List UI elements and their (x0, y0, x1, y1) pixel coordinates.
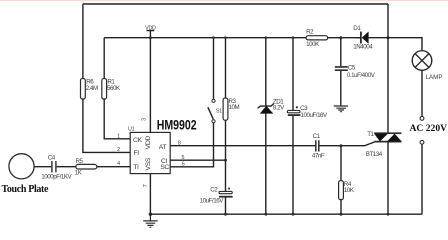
wire R4 top lead (340, 144, 343, 180)
svg-text:S1: S1 (216, 109, 222, 115)
net AC 220V label (410, 123, 448, 134)
svg-text:HM9902: HM9902 (157, 117, 197, 133)
svg-text:TI: TI (133, 164, 139, 171)
wire pin6 SC to switch column (170, 123, 213, 167)
switch S1 (208, 99, 222, 123)
node AC lower terminal (420, 140, 424, 144)
wire lower AC terminal to bottom rail (421, 144, 423, 214)
capacitor C5 (335, 64, 376, 79)
svg-text:560K: 560K (107, 85, 121, 92)
wire R6 top lead (82, 4, 84, 79)
wire triac column lower (387, 142, 390, 216)
svg-text:100K: 100K (306, 41, 320, 48)
wire triac column upper (387, 4, 389, 133)
resistor R1 (102, 79, 121, 100)
capacitor C2 polarized (200, 187, 233, 205)
capacitor C1 (312, 133, 325, 160)
svg-text:10K: 10K (344, 187, 355, 194)
svg-text:VSS: VSS (145, 157, 152, 170)
resistor R5 (75, 158, 97, 176)
svg-text:7: 7 (143, 184, 149, 187)
wire R1 top lead (103, 38, 105, 79)
wire ZD1 bottom lead (264, 113, 267, 215)
node AC upper terminal (420, 117, 424, 121)
power VDD symbol (145, 25, 156, 39)
touch plate electrode (2, 154, 50, 196)
wire pin3 stub (149, 38, 151, 133)
svg-text:C5: C5 (348, 64, 356, 71)
ground C5 (334, 106, 348, 112)
pin number 5 (182, 155, 185, 161)
svg-text:D1: D1 (353, 25, 361, 32)
wire C1 to triac gate (320, 142, 375, 146)
wire C5 top lead (340, 38, 342, 67)
lamp (412, 51, 442, 81)
wire ZD1 top lead (265, 36, 268, 106)
svg-text:3: 3 (142, 118, 148, 121)
transistor T1 triac (366, 131, 402, 158)
pin number 1 (117, 134, 120, 140)
svg-text:1000pF/1KV: 1000pF/1KV (41, 174, 72, 181)
wire D1 cathode-side wire at left (to R2) (356, 37, 361, 39)
svg-text:R2: R2 (306, 29, 314, 36)
svg-text:U1: U1 (128, 127, 135, 133)
svg-text:T1: T1 (367, 131, 374, 138)
wire lamp to upper AC terminal (421, 70, 423, 116)
svg-text:1N4004: 1N4004 (353, 44, 373, 51)
svg-text:CK: CK (133, 137, 143, 144)
svg-text:C4: C4 (48, 155, 56, 162)
wire pin7 lead (149, 174, 151, 215)
wire top rail (83, 3, 388, 5)
pin number 2 (117, 147, 120, 153)
resistor R4 (339, 181, 355, 200)
resistor R6 (81, 79, 99, 100)
wire C3 bottom lead (292, 116, 295, 216)
svg-text:FI: FI (134, 150, 140, 157)
pin number 6 (182, 161, 185, 167)
capacitor C4 (41, 155, 72, 181)
pin number 4 (117, 161, 120, 167)
pin number 3 (142, 118, 148, 121)
svg-text:0.1uF/400V: 0.1uF/400V (347, 72, 376, 79)
svg-text:10M: 10M (229, 104, 240, 111)
zener diode ZD1 (258, 99, 286, 114)
wire R4 bottom lead (340, 200, 343, 216)
svg-text:C2: C2 (210, 187, 218, 194)
svg-text:AT: AT (159, 144, 167, 151)
svg-text:100uF/16V: 100uF/16V (301, 112, 329, 119)
svg-text:C1: C1 (313, 133, 321, 140)
wire R2 to D1 (328, 36, 361, 39)
wire VDD rail left segment (104, 37, 306, 39)
svg-text:47nF: 47nF (312, 152, 325, 159)
svg-text:10uF/16V: 10uF/16V (200, 197, 225, 204)
resistor R3 (223, 98, 239, 120)
wire C5 bottom lead (340, 71, 342, 106)
faint pink top edge line (0, 0, 448, 1)
pin number 7 (143, 184, 149, 187)
resistor R2 (306, 29, 328, 49)
wire pin8 AT to C1 (170, 145, 315, 147)
svg-text:Touch Plate: Touch Plate (2, 184, 50, 195)
ground main (143, 213, 157, 228)
wire R3 bottom through node to C2 (225, 120, 227, 191)
wire touch plate to C4 (34, 166, 51, 168)
svg-text:R5: R5 (76, 158, 84, 165)
wire R6 bottom to pin2 (83, 99, 130, 152)
svg-text:AC 220V: AC 220V (410, 123, 448, 134)
svg-text:2.4M: 2.4M (86, 85, 98, 92)
wire C4 to R5 (57, 166, 76, 168)
wire C2 bottom lead (224, 198, 227, 216)
svg-text:VDD: VDD (145, 25, 156, 31)
svg-text:4: 4 (117, 161, 120, 167)
wire S1 top lead (212, 36, 215, 99)
svg-text:LAMP: LAMP (426, 74, 443, 81)
capacitor C3 polarized (287, 105, 328, 119)
svg-text:SC: SC (160, 164, 169, 171)
wire R3 top lead (224, 36, 227, 98)
wire bottom rail (150, 213, 422, 215)
wire R1 bottom to pin1 (104, 99, 130, 139)
svg-text:1: 1 (117, 134, 120, 140)
pin number 8 (178, 140, 181, 146)
wire pin5 CI to node (170, 159, 227, 162)
svg-text:2: 2 (117, 147, 120, 153)
wire C3 top lead (292, 36, 295, 110)
diode D1 (353, 25, 373, 50)
svg-text:8.2V: 8.2V (273, 104, 285, 111)
wire R5 to pin4 (97, 166, 130, 168)
svg-text:BT134: BT134 (366, 151, 383, 158)
op-amp U1 HM9902 IC body (128, 117, 197, 174)
svg-text:VDD: VDD (145, 136, 152, 150)
wire D1 to lamp corner (368, 36, 422, 51)
